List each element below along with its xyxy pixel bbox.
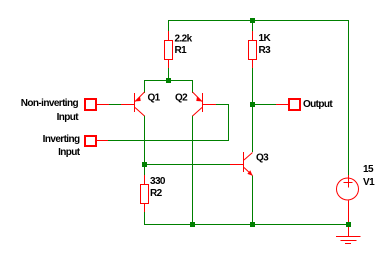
resistor R1 body [165, 41, 173, 60]
transistor Q2 emitter diagonal [193, 92, 203, 102]
ground bar 3 [345, 243, 351, 245]
ground bar 1 [336, 236, 361, 238]
voltage source V1 circle [337, 178, 359, 200]
transistor Q1 emitter diagonal [135, 92, 145, 102]
wire R1 top [168, 21, 170, 32]
port Output box [289, 99, 300, 110]
wire R1 bottom to emitter rail [168, 68, 170, 81]
node top rail junction [250, 18, 255, 23]
wire output tap [253, 104, 277, 106]
svg-text:R3: R3 [259, 45, 272, 56]
transistor Q3 base lead [230, 164, 243, 166]
svg-text:Non-inverting: Non-inverting [21, 98, 79, 109]
wire junction to R2 [144, 166, 146, 176]
ground bar 2 [341, 240, 357, 242]
resistor R3 leads [252, 31, 254, 41]
wire Q3 base wire [145, 164, 231, 166]
transistor Q1 bar [134, 93, 136, 112]
port Inverting Input box [85, 136, 96, 146]
transistor Q2 emitter arrow (PNP) [196, 96, 202, 101]
wire top rail [168, 21, 349, 177]
svg-text:R1: R1 [175, 45, 188, 56]
svg-text:Inverting: Inverting [43, 134, 80, 145]
resistor R3 body [249, 41, 257, 60]
resistor R1 leads [168, 31, 170, 41]
wire Q1 collector down [144, 116, 146, 167]
wire Q1 emitter up [144, 81, 146, 94]
resistor R2 leads [144, 175, 146, 185]
resistor R2 body [141, 185, 149, 204]
wire emitter rail [144, 80, 193, 82]
ground stem [348, 227, 350, 237]
wire bottom rail [145, 224, 349, 226]
voltage source V1 plus horizontal [344, 182, 353, 184]
svg-text:Input: Input [58, 147, 81, 158]
voltage source V1 bottom lead [348, 201, 350, 223]
svg-text:V1: V1 [363, 177, 375, 188]
wire non-inverting input middle segment [109, 104, 122, 106]
wire Q3 emitter down [252, 176, 254, 225]
node Q1 collector / R2 / Q3 base junction [142, 162, 147, 167]
voltage source V1 top lead [348, 175, 350, 178]
transistor Q2 base lead [203, 104, 216, 106]
svg-text:R2: R2 [150, 188, 163, 199]
wire Q2 emitter up [192, 81, 194, 94]
wire inverting input run [108, 104, 229, 141]
wire Q3 collector up [252, 105, 254, 152]
svg-text:Q3: Q3 [256, 153, 269, 164]
svg-text:Input: Input [57, 112, 80, 123]
svg-text:Q2: Q2 [175, 93, 188, 104]
port Non-inverting Input box [85, 99, 96, 110]
transistor Q2 collector diagonal [193, 108, 203, 117]
wire R3 bottom to output node [252, 68, 254, 105]
svg-text:330: 330 [150, 176, 166, 187]
svg-text:2.2k: 2.2k [175, 34, 193, 45]
svg-text:Q1: Q1 [148, 93, 161, 104]
transistor Q3 bar [243, 152, 245, 172]
wire R2 bottom to rail [144, 212, 146, 225]
transistor Q3 emitter arrow (NPN) [247, 170, 252, 175]
node Q2 collector bottom junction [190, 222, 195, 227]
svg-text:1K: 1K [259, 33, 272, 44]
node output junction [250, 102, 255, 107]
node emitter-rail junction [166, 78, 171, 83]
wire R3 top [252, 21, 254, 32]
wire Q2 collector down [192, 116, 194, 225]
wire Q2 base to loop corner [216, 104, 229, 106]
transistor Q1 collector diagonal [135, 108, 145, 117]
svg-text:Output: Output [303, 99, 333, 110]
transistor Q3 emitter diagonal [244, 168, 253, 176]
transistor Q1 emitter arrow (PNP) [135, 96, 141, 101]
transistor Q3 collector diagonal [244, 153, 253, 161]
node V1 ground junction [346, 222, 351, 227]
transistor Q1 base lead [121, 104, 134, 106]
svg-text:15: 15 [363, 164, 374, 175]
voltage source V1 plus vertical inside circle [348, 178, 350, 188]
transistor Q2 bar [202, 93, 204, 112]
node Q3 emitter bottom junction [250, 222, 255, 227]
